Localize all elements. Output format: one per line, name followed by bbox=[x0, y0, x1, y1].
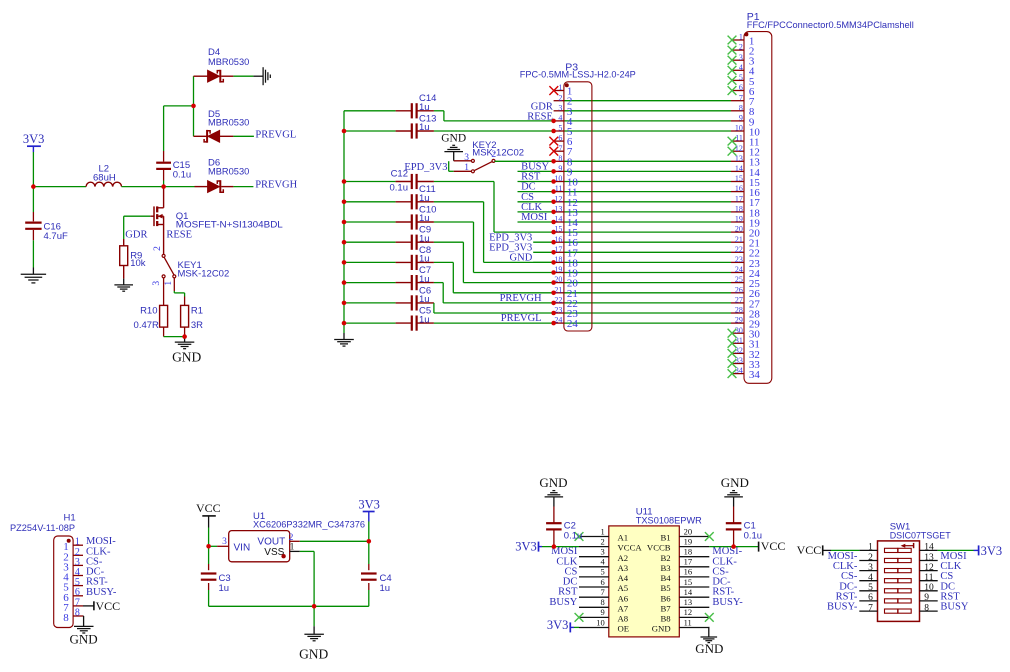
svg-text:6: 6 bbox=[601, 577, 605, 587]
svg-text:1u: 1u bbox=[419, 314, 430, 325]
svg-text:2: 2 bbox=[868, 553, 873, 563]
svg-text:18: 18 bbox=[684, 547, 693, 557]
svg-text:3R: 3R bbox=[191, 320, 203, 331]
svg-text:FFC/FPCConnector0.5MM34PClamsh: FFC/FPCConnector0.5MM34PClamshell bbox=[747, 20, 914, 31]
svg-text:MSK-12C02: MSK-12C02 bbox=[178, 268, 230, 279]
svg-text:B4: B4 bbox=[660, 573, 671, 583]
svg-text:7: 7 bbox=[739, 93, 743, 102]
svg-text:8: 8 bbox=[601, 597, 605, 607]
svg-text:EPD_3V3: EPD_3V3 bbox=[404, 162, 447, 173]
svg-text:VCC: VCC bbox=[761, 539, 786, 553]
svg-text:12: 12 bbox=[924, 563, 934, 573]
svg-text:PREVGL: PREVGL bbox=[501, 313, 542, 324]
svg-text:21: 21 bbox=[735, 235, 743, 244]
svg-text:8: 8 bbox=[75, 608, 80, 619]
svg-text:TXS0108EPWR: TXS0108EPWR bbox=[636, 515, 702, 526]
svg-text:A1: A1 bbox=[618, 533, 629, 543]
svg-text:0.1u: 0.1u bbox=[173, 170, 192, 181]
svg-text:68uH: 68uH bbox=[93, 172, 116, 183]
svg-text:1u: 1u bbox=[419, 213, 430, 224]
svg-text:3: 3 bbox=[601, 547, 605, 557]
svg-text:OE: OE bbox=[618, 624, 630, 634]
svg-text:17: 17 bbox=[684, 557, 693, 567]
svg-text:3: 3 bbox=[152, 281, 162, 286]
svg-text:RESE: RESE bbox=[527, 112, 553, 123]
svg-text:0.1u: 0.1u bbox=[564, 531, 583, 542]
svg-text:9: 9 bbox=[558, 164, 562, 173]
svg-text:6: 6 bbox=[558, 134, 562, 143]
svg-text:10: 10 bbox=[596, 617, 605, 627]
svg-text:VIN: VIN bbox=[234, 542, 251, 553]
svg-text:2: 2 bbox=[289, 533, 294, 543]
svg-text:A8: A8 bbox=[618, 614, 629, 624]
svg-text:3V3: 3V3 bbox=[515, 539, 537, 553]
svg-text:A6: A6 bbox=[618, 593, 629, 603]
svg-text:0.1u: 0.1u bbox=[390, 182, 409, 193]
svg-text:7: 7 bbox=[868, 603, 873, 613]
svg-text:GND: GND bbox=[70, 632, 98, 647]
svg-text:8: 8 bbox=[924, 603, 929, 613]
svg-text:34: 34 bbox=[749, 369, 761, 381]
svg-text:VCC: VCC bbox=[196, 501, 221, 515]
svg-text:PZ254V-11-08P: PZ254V-11-08P bbox=[10, 523, 75, 534]
svg-text:3: 3 bbox=[558, 103, 562, 112]
svg-text:10: 10 bbox=[735, 124, 743, 133]
svg-text:4: 4 bbox=[868, 573, 873, 583]
svg-text:24: 24 bbox=[735, 265, 743, 274]
svg-text:MSK-12C02: MSK-12C02 bbox=[472, 147, 524, 158]
svg-text:28: 28 bbox=[735, 306, 743, 315]
svg-text:16: 16 bbox=[684, 567, 693, 577]
svg-text:A3: A3 bbox=[618, 563, 629, 573]
svg-text:3V3: 3V3 bbox=[547, 618, 569, 632]
svg-text:1u: 1u bbox=[419, 254, 430, 265]
svg-text:VCC: VCC bbox=[797, 543, 822, 557]
svg-text:8: 8 bbox=[63, 612, 69, 624]
svg-text:8: 8 bbox=[739, 103, 743, 112]
svg-text:MBR0530: MBR0530 bbox=[208, 118, 249, 129]
svg-text:26: 26 bbox=[735, 285, 743, 294]
svg-text:PREVGL: PREVGL bbox=[255, 129, 296, 140]
svg-text:1: 1 bbox=[464, 163, 469, 173]
svg-text:GND: GND bbox=[695, 641, 723, 656]
svg-text:27: 27 bbox=[735, 296, 743, 305]
svg-text:RESE: RESE bbox=[166, 230, 192, 241]
svg-text:B6: B6 bbox=[660, 593, 671, 603]
svg-text:3V3: 3V3 bbox=[358, 498, 380, 512]
svg-text:VCCA: VCCA bbox=[618, 543, 643, 553]
svg-text:17: 17 bbox=[735, 194, 743, 203]
svg-text:9: 9 bbox=[601, 607, 605, 617]
svg-text:GND: GND bbox=[441, 133, 466, 145]
svg-text:DSIC07TSGET: DSIC07TSGET bbox=[890, 530, 951, 541]
svg-text:3: 3 bbox=[868, 563, 873, 573]
svg-text:7: 7 bbox=[558, 144, 562, 153]
svg-text:2: 2 bbox=[558, 93, 562, 102]
svg-text:VCC: VCC bbox=[96, 599, 121, 613]
svg-text:5: 5 bbox=[739, 73, 743, 82]
svg-text:0.47R: 0.47R bbox=[134, 320, 159, 331]
svg-text:11: 11 bbox=[684, 617, 692, 627]
svg-text:2: 2 bbox=[153, 246, 163, 251]
svg-text:15: 15 bbox=[684, 577, 693, 587]
svg-text:10: 10 bbox=[924, 583, 934, 593]
svg-text:1: 1 bbox=[164, 281, 174, 286]
svg-text:6: 6 bbox=[868, 593, 873, 603]
svg-text:19: 19 bbox=[684, 536, 693, 546]
svg-text:5: 5 bbox=[558, 124, 562, 133]
svg-text:1u: 1u bbox=[419, 294, 430, 305]
svg-text:PREVGH: PREVGH bbox=[500, 293, 542, 304]
svg-text:15: 15 bbox=[735, 174, 743, 183]
svg-text:2: 2 bbox=[739, 43, 743, 52]
svg-text:1: 1 bbox=[558, 83, 562, 92]
svg-text:BUSY: BUSY bbox=[549, 597, 577, 608]
svg-text:7: 7 bbox=[601, 587, 605, 597]
svg-text:R10: R10 bbox=[140, 305, 157, 316]
svg-text:9: 9 bbox=[739, 114, 743, 123]
svg-text:1: 1 bbox=[290, 542, 295, 552]
svg-text:13: 13 bbox=[924, 553, 934, 563]
svg-text:1: 1 bbox=[739, 33, 743, 42]
svg-text:FPC-0.5MM-LSSJ-H2.0-24P: FPC-0.5MM-LSSJ-H2.0-24P bbox=[520, 70, 636, 81]
svg-text:23: 23 bbox=[735, 255, 743, 264]
svg-text:1: 1 bbox=[868, 543, 873, 553]
svg-text:0.1u: 0.1u bbox=[744, 531, 763, 542]
svg-text:8: 8 bbox=[558, 154, 562, 163]
svg-text:BUSY: BUSY bbox=[940, 602, 968, 613]
svg-text:3V3: 3V3 bbox=[23, 132, 45, 146]
svg-text:6: 6 bbox=[739, 83, 743, 92]
svg-text:XC6206P332MR_C347376: XC6206P332MR_C347376 bbox=[253, 520, 365, 531]
svg-text:3: 3 bbox=[222, 537, 227, 547]
svg-text:GND: GND bbox=[172, 350, 201, 365]
svg-text:GND: GND bbox=[539, 475, 567, 490]
svg-text:A7: A7 bbox=[618, 603, 629, 613]
svg-text:BUSY-: BUSY- bbox=[86, 587, 117, 598]
svg-text:9: 9 bbox=[924, 593, 929, 603]
svg-text:4: 4 bbox=[558, 114, 562, 123]
svg-text:B1: B1 bbox=[660, 533, 670, 543]
svg-text:1u: 1u bbox=[419, 233, 430, 244]
svg-text:1u: 1u bbox=[380, 583, 391, 594]
svg-text:10k: 10k bbox=[130, 258, 146, 269]
svg-text:11: 11 bbox=[735, 134, 743, 143]
svg-text:1u: 1u bbox=[419, 102, 430, 113]
svg-text:12: 12 bbox=[684, 607, 693, 617]
svg-text:14: 14 bbox=[684, 587, 693, 597]
svg-text:R1: R1 bbox=[191, 305, 203, 316]
svg-text:22: 22 bbox=[735, 245, 743, 254]
svg-text:18: 18 bbox=[735, 205, 743, 214]
svg-text:14: 14 bbox=[924, 543, 934, 553]
svg-text:GND: GND bbox=[510, 253, 533, 264]
svg-text:H1: H1 bbox=[64, 513, 76, 524]
svg-text:VOUT: VOUT bbox=[257, 537, 285, 548]
svg-text:19: 19 bbox=[735, 215, 743, 224]
svg-text:MBR0530: MBR0530 bbox=[208, 57, 249, 68]
svg-text:4: 4 bbox=[601, 557, 606, 567]
svg-text:GDR: GDR bbox=[125, 230, 147, 241]
svg-text:2: 2 bbox=[601, 536, 605, 546]
svg-text:BUSY-: BUSY- bbox=[827, 602, 858, 613]
svg-text:PREVGH: PREVGH bbox=[255, 180, 297, 191]
svg-text:4.7uF: 4.7uF bbox=[44, 231, 68, 242]
svg-text:B2: B2 bbox=[660, 553, 670, 563]
svg-text:5: 5 bbox=[868, 583, 873, 593]
svg-text:20: 20 bbox=[735, 225, 743, 234]
svg-text:1: 1 bbox=[601, 526, 605, 536]
svg-text:4: 4 bbox=[739, 63, 743, 72]
svg-text:A5: A5 bbox=[618, 583, 629, 593]
svg-text:BUSY-: BUSY- bbox=[712, 597, 743, 608]
svg-text:3: 3 bbox=[739, 53, 743, 62]
svg-text:B3: B3 bbox=[660, 563, 670, 573]
svg-text:30: 30 bbox=[735, 326, 743, 335]
svg-text:25: 25 bbox=[735, 275, 743, 284]
svg-text:3: 3 bbox=[464, 153, 469, 163]
svg-text:VCCB: VCCB bbox=[647, 543, 671, 553]
svg-text:1u: 1u bbox=[219, 583, 230, 594]
svg-text:B8: B8 bbox=[660, 614, 671, 624]
svg-text:24: 24 bbox=[567, 318, 579, 330]
svg-text:GND: GND bbox=[299, 647, 328, 662]
svg-text:20: 20 bbox=[684, 526, 693, 536]
svg-text:MBR0530: MBR0530 bbox=[208, 166, 249, 177]
svg-text:14: 14 bbox=[735, 164, 743, 173]
svg-text:11: 11 bbox=[924, 573, 933, 583]
svg-text:16: 16 bbox=[735, 184, 743, 193]
svg-text:MOSI: MOSI bbox=[521, 212, 548, 223]
svg-text:5: 5 bbox=[601, 567, 605, 577]
svg-text:1u: 1u bbox=[419, 274, 430, 285]
svg-text:GND: GND bbox=[721, 475, 749, 490]
svg-text:1u: 1u bbox=[419, 122, 430, 133]
svg-text:GND: GND bbox=[652, 624, 671, 634]
svg-text:1u: 1u bbox=[419, 193, 430, 204]
svg-text:A2: A2 bbox=[618, 553, 629, 563]
svg-text:B5: B5 bbox=[660, 583, 670, 593]
svg-text:A4: A4 bbox=[618, 573, 629, 583]
svg-text:B7: B7 bbox=[660, 603, 671, 613]
svg-text:29: 29 bbox=[735, 316, 743, 325]
svg-text:13: 13 bbox=[684, 597, 693, 607]
svg-text:3V3: 3V3 bbox=[981, 544, 1003, 558]
